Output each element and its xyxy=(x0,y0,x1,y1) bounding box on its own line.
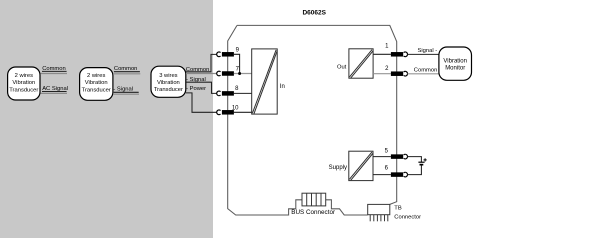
svg-text:D6062S: D6062S xyxy=(302,9,326,16)
svg-text:2 wires: 2 wires xyxy=(87,73,105,79)
label Signal (T2) xyxy=(113,87,139,95)
svg-text:Vibration: Vibration xyxy=(12,80,35,86)
Supply isolation block xyxy=(349,151,373,180)
svg-text:BUS Connector: BUS Connector xyxy=(291,209,335,216)
terminal 8 xyxy=(217,86,239,96)
svg-text:TB: TB xyxy=(394,205,402,211)
terminal 2 xyxy=(385,66,407,76)
label Common (T3) xyxy=(186,67,210,73)
transducer box T2 (2 wires) xyxy=(80,68,113,101)
svg-text:- Power: - Power xyxy=(186,86,206,92)
wire battery to t6 xyxy=(408,165,422,174)
TB connector xyxy=(368,204,390,221)
wire supply to t5 xyxy=(373,156,391,158)
Out isolation block xyxy=(349,49,373,78)
battery xyxy=(418,158,426,165)
svg-text:Transducer: Transducer xyxy=(9,87,38,93)
wire t1 to monitor xyxy=(408,53,439,55)
svg-text:Monitor: Monitor xyxy=(445,65,465,71)
label Signal (T3) xyxy=(186,77,206,83)
label Power (T3) xyxy=(186,86,206,92)
svg-text:Connector: Connector xyxy=(394,215,421,221)
wire t5 to battery xyxy=(408,157,422,162)
svg-text:Vibration: Vibration xyxy=(157,80,180,86)
junction dot xyxy=(238,72,241,75)
wire t7 to In box xyxy=(234,73,252,75)
svg-text:Transducer: Transducer xyxy=(82,87,111,93)
transducer box T1 (2 wires AC) xyxy=(8,67,40,100)
In isolation block xyxy=(252,49,278,114)
Vibration Monitor box xyxy=(439,47,472,80)
svg-text:Signal -: Signal - xyxy=(418,48,438,54)
svg-text:10: 10 xyxy=(232,105,239,111)
wire signal to terminal 8 xyxy=(186,82,217,93)
wire power to terminal 10 xyxy=(186,93,217,112)
terminal 1 xyxy=(385,43,407,56)
wire t2 to monitor xyxy=(408,73,439,75)
svg-text:2 wires: 2 wires xyxy=(15,73,33,79)
terminal 9 xyxy=(217,47,240,56)
gray panel xyxy=(0,0,213,238)
terminal 10 xyxy=(217,105,239,114)
wire t8 to In box xyxy=(234,92,252,94)
wire t9 to junction xyxy=(234,54,240,73)
label Common (T1) xyxy=(41,66,68,74)
wire common to terminal 9 xyxy=(186,54,217,71)
terminal 5 xyxy=(385,149,408,159)
label AC Signal (T1) xyxy=(41,86,68,93)
wire common to terminal 7 xyxy=(186,73,217,75)
svg-text:Transducer: Transducer xyxy=(154,87,183,93)
wire t10 to In box xyxy=(234,111,252,113)
svg-text:Supply: Supply xyxy=(329,165,347,171)
svg-text:3 wires: 3 wires xyxy=(159,73,177,79)
svg-text:Vibration: Vibration xyxy=(85,80,108,86)
terminal 6 xyxy=(385,166,408,177)
terminal 7 xyxy=(217,66,240,76)
svg-text:- Signal: - Signal xyxy=(113,87,133,93)
svg-text:Common: Common xyxy=(414,67,438,73)
big unit outline xyxy=(228,25,397,215)
svg-text:In: In xyxy=(280,84,285,90)
wire out to t2 xyxy=(373,73,391,75)
wire supply to t6 xyxy=(373,174,391,176)
BUS connector ribbed box xyxy=(302,193,326,206)
label Common (T2) xyxy=(113,66,140,74)
svg-text:Out: Out xyxy=(337,65,347,71)
transducer box T3 (3 wires) xyxy=(151,66,186,97)
wire out to t1 xyxy=(373,53,391,55)
svg-text:Vibration: Vibration xyxy=(443,59,467,65)
